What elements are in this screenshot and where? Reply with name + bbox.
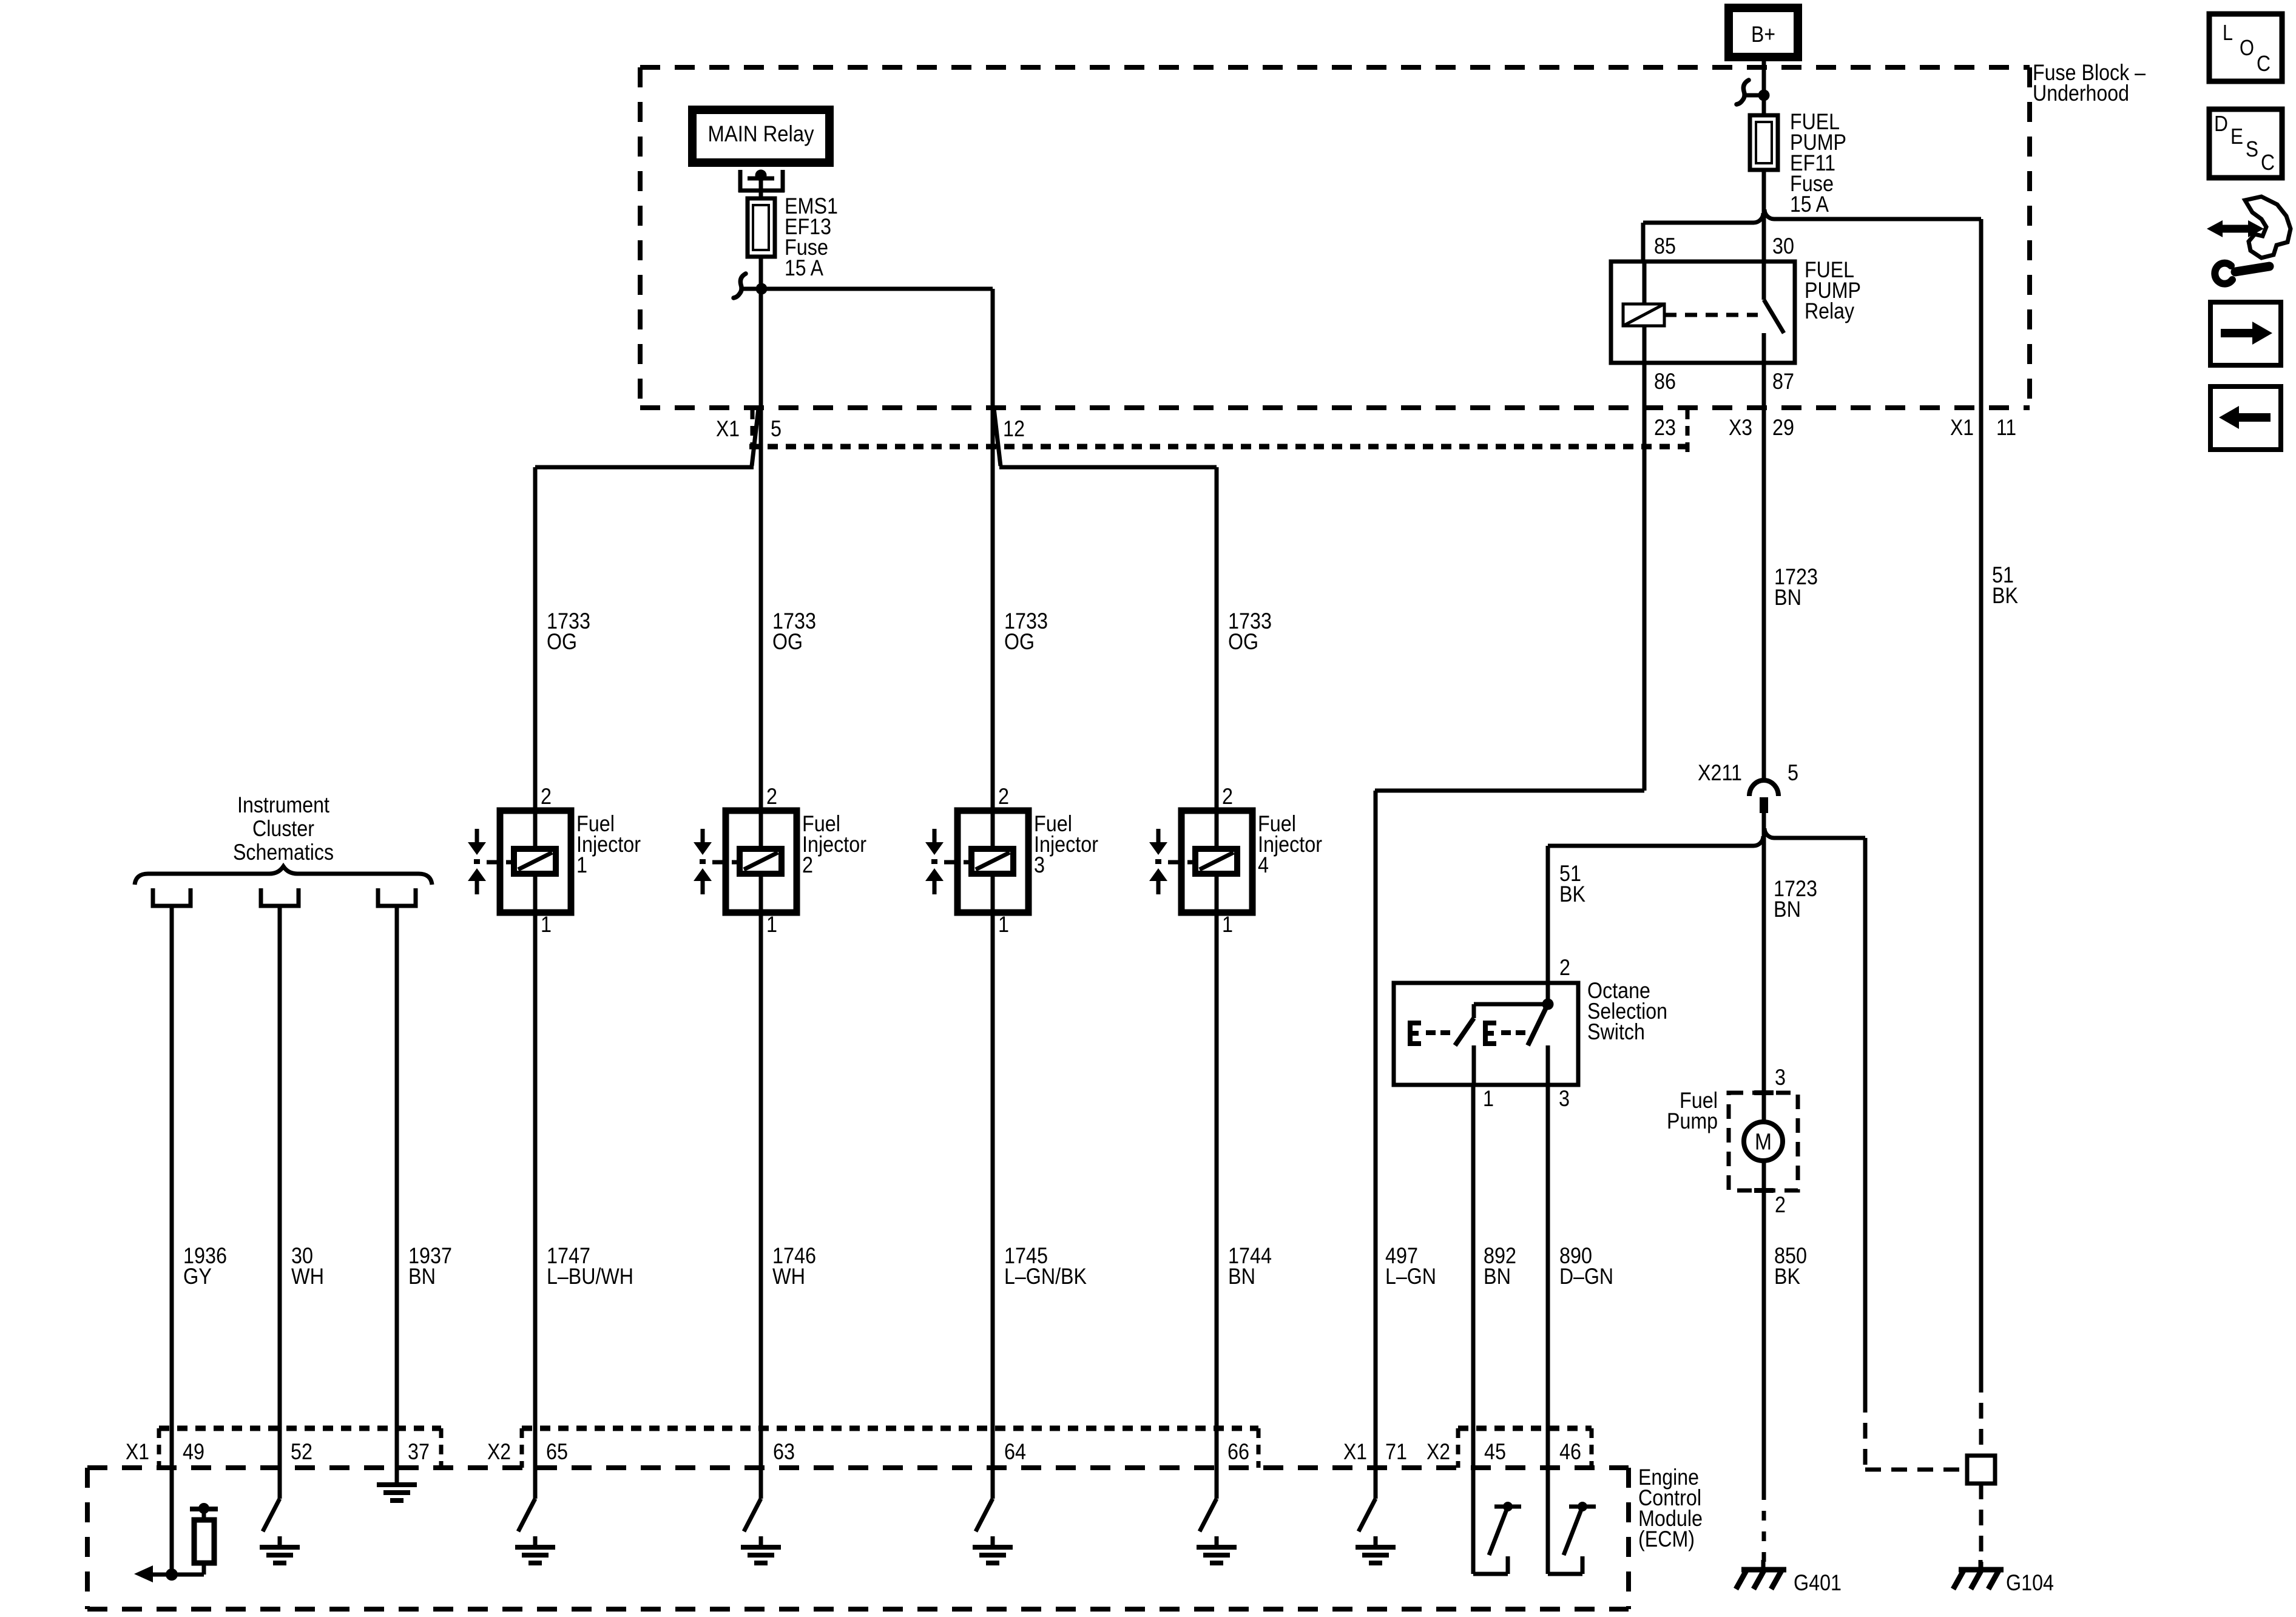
svg-text:37: 37 [408, 1439, 430, 1464]
svg-text:71: 71 [1385, 1439, 1407, 1464]
svg-text:11: 11 [1996, 415, 2016, 440]
MAIN relay box [692, 110, 829, 163]
pin 12 jog [994, 408, 1001, 466]
svg-text:OG: OG [547, 629, 577, 654]
svg-text:OG: OG [772, 629, 803, 654]
splice S2 [734, 274, 746, 298]
pin 5 jog [752, 408, 758, 466]
svg-text:23: 23 [1654, 415, 1676, 440]
fuse EMS1 EF13 15A [748, 198, 775, 257]
svg-text:1: 1 [1222, 912, 1233, 937]
fuel injector 2 valve [701, 829, 705, 843]
wire 86 horizontal [1375, 789, 1644, 793]
fuel injector 1 output wire [533, 913, 538, 1468]
ECM pin 52 switch to ground [278, 1468, 282, 1499]
cluster wire 1 [170, 906, 174, 1468]
svg-text:66: 66 [1227, 1439, 1249, 1464]
branch junction right to X1-11 [1764, 209, 1981, 219]
ECM strip X2b dashes [1458, 1426, 1592, 1431]
icon arrow left box [2210, 387, 2281, 450]
icon arrow right box [2210, 302, 2281, 365]
svg-text:2: 2 [541, 784, 552, 809]
svg-text:(ECM): (ECM) [1638, 1527, 1695, 1551]
svg-text:O: O [2240, 35, 2254, 60]
instrument cluster brace [135, 866, 432, 885]
fuel injector 4 box [1181, 811, 1252, 913]
ECM pin 46 driver [1546, 1468, 1550, 1574]
svg-text:5: 5 [1788, 760, 1798, 785]
wire 890 D-GN [1546, 1085, 1550, 1468]
svg-text:3: 3 [1559, 1086, 1570, 1111]
ECM pin 63 switch to ground [759, 1468, 763, 1499]
svg-text:C: C [2261, 150, 2275, 175]
wire splice to fuse [1762, 95, 1766, 115]
svg-text:65: 65 [546, 1439, 568, 1464]
wire 86 down [1643, 363, 1647, 791]
svg-text:3: 3 [1775, 1065, 1786, 1090]
ECM pin 65 switch to ground [533, 1468, 538, 1499]
svg-text:52: 52 [291, 1439, 312, 1464]
svg-text:L–GN/BK: L–GN/BK [1004, 1264, 1087, 1289]
ECM strip X1 dashes [159, 1426, 441, 1431]
svg-text:X1: X1 [1950, 415, 1974, 440]
svg-text:30: 30 [1772, 234, 1794, 258]
fuel injector 4 output wire [1215, 913, 1219, 1468]
fuel injector 4 valve [1156, 829, 1161, 843]
wire 51 BK right [1979, 219, 1984, 1377]
svg-text:46: 46 [1559, 1439, 1581, 1464]
svg-text:X1: X1 [1343, 1439, 1367, 1464]
svg-text:X1: X1 [126, 1439, 149, 1464]
ECM pin 49 internal [170, 1468, 174, 1575]
wire splice to pin5 [759, 289, 763, 811]
wire splice to pin12 [761, 287, 993, 291]
injector feed left [535, 465, 754, 470]
svg-text:BN: BN [408, 1264, 436, 1289]
fuel injector 2 output wire [759, 913, 763, 1468]
svg-text:X2: X2 [487, 1439, 511, 1464]
svg-text:WH: WH [291, 1264, 324, 1289]
svg-text:BN: BN [1228, 1264, 1255, 1289]
fuel injector 2 solenoid [740, 849, 782, 874]
wire 497 to ECM [1374, 791, 1378, 1468]
sep 23/X3 [1686, 410, 1690, 452]
svg-text:29: 29 [1772, 415, 1794, 440]
svg-text:2: 2 [766, 784, 777, 809]
svg-text:BN: BN [1774, 897, 1801, 922]
fuel injector 3 solenoid [971, 849, 1013, 874]
wire B+ to splice [1762, 53, 1766, 95]
svg-text:1: 1 [766, 912, 777, 937]
ground branch right fillet [1764, 828, 1865, 838]
svg-text:B+: B+ [1751, 22, 1775, 47]
octane E contact 1 [1410, 1023, 1421, 1044]
svg-text:1: 1 [541, 912, 552, 937]
cluster wire 3 [395, 906, 399, 1468]
svg-text:D: D [2214, 111, 2228, 136]
svg-text:2: 2 [1222, 784, 1233, 809]
wire to relay pin 85 [1641, 223, 1646, 262]
svg-text:L–GN: L–GN [1385, 1264, 1436, 1289]
ground branch left fillet [1548, 836, 1763, 846]
svg-text:BN: BN [1774, 585, 1801, 610]
ECM pin 66 switch to ground [1215, 1468, 1219, 1499]
svg-text:G104: G104 [2006, 1570, 2054, 1595]
octane switch blade 1 [1455, 1018, 1474, 1045]
svg-text:49: 49 [183, 1439, 204, 1464]
fuel injector 3 valve [933, 829, 937, 843]
svg-text:D–GN: D–GN [1559, 1264, 1613, 1289]
svg-text:MAIN Relay: MAIN Relay [708, 121, 814, 146]
splice S101 [1737, 80, 1749, 104]
svg-text:12: 12 [1003, 416, 1025, 441]
svg-text:OG: OG [1004, 629, 1035, 654]
svg-text:X211: X211 [1698, 760, 1742, 785]
wire 850 BK dashed [1762, 1490, 1766, 1570]
svg-text:85: 85 [1654, 234, 1676, 258]
svg-text:1: 1 [998, 912, 1009, 937]
ECM pin 45 driver [1471, 1468, 1476, 1574]
wire 87 to X211 [1762, 363, 1766, 781]
wire 51 BK dashed to splice [1979, 1377, 1984, 1456]
fuel injector 2 box [726, 811, 797, 913]
fuel pump pin 2 wire [1762, 1160, 1766, 1490]
fuse block underhood dashed box [640, 65, 2030, 70]
svg-text:S: S [2246, 137, 2258, 161]
relay contact 30-87 [1762, 262, 1766, 300]
svg-text:2: 2 [802, 852, 813, 877]
svg-text:C: C [2257, 51, 2271, 76]
svg-text:2: 2 [998, 784, 1009, 809]
fuel injector 1 solenoid [514, 849, 556, 874]
ECM pin 71 switch to ground [1374, 1468, 1378, 1499]
svg-text:2: 2 [1559, 955, 1570, 980]
svg-text:Instrument: Instrument [237, 792, 330, 817]
main relay terminal bracket [738, 170, 743, 192]
svg-text:BK: BK [1774, 1264, 1800, 1289]
relay coil-contact dashed link [1664, 313, 1758, 317]
fuel injector 3 output wire [991, 913, 995, 1468]
ECM pin 64 switch to ground [991, 1468, 995, 1499]
octane switch blade 2 [1528, 1007, 1547, 1045]
svg-text:Schematics: Schematics [233, 840, 334, 865]
svg-text:L–BU/WH: L–BU/WH [547, 1264, 633, 1289]
svg-text:M: M [1755, 1130, 1772, 1155]
B+ battery symbol [1729, 8, 1798, 57]
connector strip bottom dashes [749, 444, 1687, 450]
ground G401 [1761, 1560, 1766, 1570]
fuel injector 1 box [500, 811, 571, 913]
svg-text:87: 87 [1772, 369, 1794, 394]
svg-text:45: 45 [1484, 1439, 1506, 1464]
ECM pin 37 ground [395, 1468, 399, 1485]
svg-text:86: 86 [1654, 369, 1676, 394]
ground branch dashes [1863, 1397, 1868, 1470]
cluster wire 2 [278, 906, 282, 1468]
svg-text:BK: BK [1559, 882, 1585, 906]
connector X211 [1749, 780, 1778, 796]
wire 51 BK to octane pin 2 [1546, 846, 1550, 983]
svg-text:OG: OG [1228, 629, 1258, 654]
ECM strip X2 dashes [522, 1426, 1258, 1431]
ground branch right drop [1863, 838, 1868, 1397]
ECM dashed box [87, 1465, 1629, 1470]
wire fuse to junction [1762, 170, 1766, 262]
svg-text:2: 2 [1775, 1192, 1786, 1217]
fuel pump dashed box [1729, 1093, 1798, 1190]
svg-text:Pump: Pump [1667, 1109, 1718, 1133]
branch junction left to pin85 [1643, 213, 1763, 223]
injector feed right [999, 465, 1217, 470]
icon LOC box [2209, 14, 2282, 81]
svg-text:Switch: Switch [1587, 1019, 1645, 1044]
svg-text:Cluster: Cluster [252, 816, 314, 841]
svg-text:X1: X1 [716, 416, 740, 441]
fuel injector 1 valve [475, 829, 479, 843]
sep X1/5 [751, 410, 755, 447]
svg-text:15 A: 15 A [1790, 192, 1829, 217]
fuel pump motor [1744, 1122, 1783, 1161]
fuel pump relay box [1611, 262, 1795, 363]
cluster connector 2 [261, 888, 299, 906]
ground G104 [1979, 1560, 1983, 1570]
fuse FUEL PUMP EF11 15A [1750, 115, 1778, 170]
wire fuse to splice [759, 257, 763, 289]
svg-text:4: 4 [1258, 852, 1269, 877]
relay coil [1643, 262, 1647, 304]
icon DESC box [2209, 109, 2282, 178]
svg-text:1: 1 [1483, 1086, 1494, 1111]
svg-text:X3: X3 [1729, 415, 1752, 440]
svg-text:Relay: Relay [1805, 299, 1854, 323]
svg-text:BK: BK [1992, 583, 2018, 608]
octane pin 1 stub [1472, 1045, 1476, 1085]
svg-text:WH: WH [772, 1264, 805, 1289]
icon wrench arrows [2221, 225, 2250, 233]
cluster connector 3 [378, 888, 416, 906]
svg-text:Underhood: Underhood [2033, 81, 2129, 106]
fuel injector 3 box [957, 811, 1028, 913]
svg-text:G401: G401 [1794, 1570, 1842, 1595]
fuel injector 4 solenoid [1195, 849, 1237, 874]
svg-text:E: E [2230, 124, 2243, 149]
svg-text:63: 63 [773, 1439, 795, 1464]
svg-text:64: 64 [1004, 1439, 1026, 1464]
svg-text:3: 3 [1034, 852, 1045, 877]
wire X211 to pump [1762, 813, 1766, 1121]
octane pin 3 stub [1546, 1045, 1550, 1085]
svg-text:BN: BN [1484, 1264, 1511, 1289]
octane switch box [1394, 983, 1578, 1085]
wire 892 BN [1471, 1085, 1476, 1468]
svg-text:5: 5 [771, 416, 782, 441]
svg-text:1: 1 [576, 852, 587, 877]
cluster connector 1 [153, 888, 191, 906]
splice connector square [1967, 1456, 1995, 1484]
svg-text:15 A: 15 A [785, 255, 823, 280]
svg-text:L: L [2223, 20, 2233, 45]
octane E contact 2 [1485, 1023, 1496, 1044]
svg-text:X2: X2 [1427, 1439, 1450, 1464]
octane internal feed [1546, 983, 1550, 1004]
svg-text:GY: GY [183, 1264, 212, 1289]
wire splice to G104 dashed [1979, 1484, 1984, 1570]
